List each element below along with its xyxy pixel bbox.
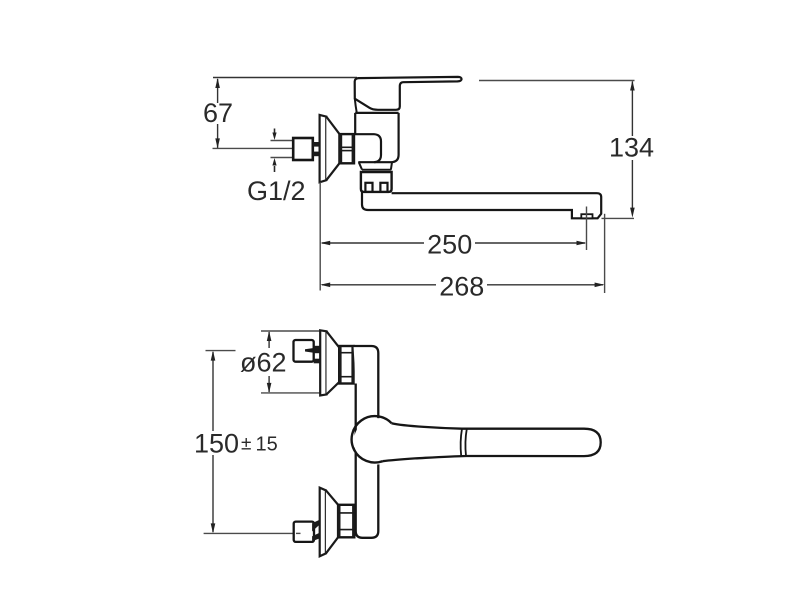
svg-text:150: 150: [194, 429, 239, 459]
svg-text:134: 134: [609, 133, 654, 163]
centerline stub inside lower block: [296, 532, 301, 534]
spout plan view: [383, 423, 601, 461]
outlet neck (top view): [359, 162, 392, 169]
lower supply block (bottom view): [294, 522, 314, 542]
dimension ø62: [261, 330, 321, 332]
body bar (bottom view): [354, 346, 379, 538]
svg-text:G1/2: G1/2: [247, 176, 306, 206]
dimension 250: [320, 241, 586, 246]
dimension 150 ±15: [206, 350, 236, 352]
svg-text:±: ±: [241, 434, 251, 455]
upper supply block (bottom view): [294, 340, 314, 362]
spout joint lines: [461, 429, 467, 456]
upper union nut (bottom view): [339, 346, 353, 384]
dimension 67 line: [215, 78, 220, 148]
union nut (top view): [340, 134, 355, 163]
G1/2 small arrows: [272, 129, 276, 173]
svg-text:15: 15: [256, 434, 278, 456]
escutcheon disc (top view): [320, 115, 327, 182]
G1/2 thread extension lines: [271, 140, 294, 142]
lower stub: [312, 520, 320, 532]
handle lever (top view): [355, 77, 462, 110]
extension line top-right: [479, 80, 635, 82]
body boss (top view): [354, 134, 381, 162]
svg-text:67: 67: [203, 98, 233, 128]
spout (top view): [362, 192, 601, 218]
upper stub: [305, 348, 314, 353]
cartridge boss arc (bottom view): [352, 416, 392, 462]
centerline G1/2: [213, 147, 293, 149]
wall supply block (top view): [293, 138, 313, 160]
extension line top-left: [213, 77, 357, 79]
svg-text:268: 268: [439, 271, 484, 301]
wall extension line below flange: [319, 182, 321, 290]
extension line 250 tip: [586, 207, 588, 251]
spout nut (top view): [361, 172, 392, 192]
aerator: [581, 214, 592, 218]
upper escutcheon disc (bottom view): [320, 330, 326, 395]
lower escutcheon cone: [326, 490, 338, 553]
lower escutcheon disc (bottom view): [320, 488, 326, 557]
escutcheon cone (top view): [326, 117, 339, 181]
lower union nut (bottom view): [338, 505, 354, 538]
cartridge boss white mask (bottom view): [354, 418, 400, 464]
upper escutcheon cone: [327, 331, 340, 394]
spout nut flats: [365, 183, 372, 192]
dimension 268: [320, 283, 604, 288]
dimension 134: [602, 217, 635, 219]
svg-text:ø62: ø62: [240, 348, 287, 378]
threaded stub (top view): [313, 142, 320, 147]
svg-text:250: 250: [427, 230, 472, 260]
extension line 268 tip: [604, 214, 606, 293]
handle skirt line: [355, 99, 357, 113]
faucet body (top view): [355, 113, 398, 162]
